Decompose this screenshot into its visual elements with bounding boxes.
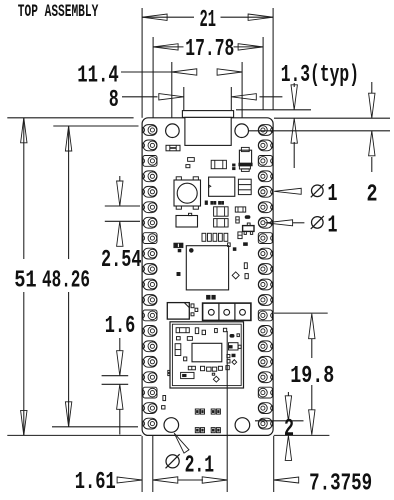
pad row 6 left [143,202,157,213]
wireless module inner outline [172,324,241,385]
svg-text:51: 51 [14,268,37,295]
component: small part near top-left hole [166,145,180,151]
pad row 8 right [258,233,272,244]
pad row 13 left [143,310,157,321]
dim 21 overall width [141,8,143,118]
module right box [229,343,239,350]
diamond part [232,272,239,279]
component B with pads (crystal) [241,147,249,151]
pad row 17 left [143,372,157,383]
tiny parts beside flash [191,304,194,308]
svg-text:11.4: 11.4 [77,62,119,89]
PCB board outline [142,118,273,436]
small cap c1 [188,158,195,162]
pad row 19 right [258,403,272,414]
pad row 16 left [143,356,157,367]
pad row 12 left [143,295,157,306]
svg-text:48.26: 48.26 [42,268,90,295]
pad row 11 right [258,279,272,290]
tiny two-dot part right of resistor [233,164,235,166]
pad row 15 right [258,341,272,352]
debug connector [203,303,251,320]
small caps row [205,201,207,204]
inductor / caps stack right [238,179,251,194]
module right small parts [227,355,230,358]
pad row 11 left [143,279,157,290]
flash chip [167,303,189,320]
dim 17.78 hole columns [152,37,154,118]
chip resistor R near usb [211,160,226,168]
pad row 13 right [258,310,272,321]
pad row 12 right [258,295,272,306]
svg-text:21: 21 [200,7,217,34]
pad row 19 left [143,403,157,414]
pad row 4 left [143,171,157,182]
two-pad part a [236,217,239,223]
dim 2 pin20 to bottom edge [255,420,304,422]
pad row 4 right [258,171,272,182]
pad row 2 left [143,140,157,151]
module resistor top-left [176,328,189,333]
pad row 10 right [258,264,272,275]
svg-text:17.78: 17.78 [185,36,234,63]
pad row 3 right [258,156,272,167]
dim 2.54 pad pitch [105,205,140,207]
svg-text:8: 8 [109,87,119,114]
module edge tabs [168,370,170,372]
pad row 17 right [258,372,272,383]
dim 51 board length [7,117,133,119]
chip resistor R3 [214,219,229,227]
tiny pill b [244,243,248,246]
pad row 20 left [143,418,157,429]
mounting hole [235,124,249,138]
pad row 7 right [258,217,272,228]
svg-text:2: 2 [367,181,378,208]
module bottom row [188,366,195,370]
test pad pairs [195,409,199,414]
svg-text:1.61: 1.61 [75,469,116,496]
pad row 1 left [143,125,157,136]
dia 1 pin hole label [266,220,293,226]
small cap c2 [186,165,190,168]
module left parts [177,337,181,340]
board bottom extension lines [7,434,141,436]
module bottom-left box [181,372,194,378]
module small parts top row [195,328,198,334]
svg-text:1: 1 [328,212,338,239]
sot-23 transistor [247,223,250,226]
dim 11.4 mounting holes [171,62,173,118]
mounting hole [166,124,180,138]
svg-text:7.3759: 7.3759 [309,470,372,497]
two dark dots above debug connector [207,295,210,299]
two-pad part b [238,232,242,239]
pad row 9 right [258,248,272,259]
pad row 20 right [258,418,272,429]
regulator chip U [209,177,235,196]
small resistor left of RP2040 [174,243,183,247]
svg-text:2.54: 2.54 [101,247,142,274]
pad row 7 left [143,217,157,228]
pad row 5 right [258,186,272,197]
pad row 10 left [143,264,157,275]
pad row 8 left [143,233,157,244]
bottom extension verticals [141,436,143,492]
mounting hole [164,418,179,433]
svg-text:1: 1 [328,181,338,208]
pad row 6 right [258,202,272,213]
usb connector body [185,117,231,145]
dim hole column to module feature [178,479,203,481]
pad row 5 left [143,186,157,197]
dim 19.8 debug connector to bottom [274,312,328,314]
tiny pill a [245,216,250,219]
BOOTSEL button [176,177,181,180]
pad row 14 left [143,326,157,337]
svg-text:1.6: 1.6 [105,313,136,340]
svg-text:TOP ASSEMBLY: TOP ASSEMBLY [18,2,99,22]
pad row 2 right [258,140,272,151]
CYW43439 chip [192,343,222,362]
RP2040 chip [186,246,228,290]
bottom-left tiny parts [163,396,166,401]
svg-text:2: 2 [284,416,294,443]
svg-text:2.1: 2.1 [185,453,215,480]
dim 2 top edge to pin1 [274,117,390,119]
chip resistor right cluster [235,207,245,212]
wireless module outer shield [170,322,244,388]
chip resistor R2 [214,207,229,216]
pad row 9 left [143,248,157,259]
dim 7.3759 [274,477,299,483]
pad row 15 left [143,341,157,352]
pad row 18 left [143,387,157,398]
pad row 18 right [258,387,272,398]
pad row 3 left [143,156,157,167]
tiny parts around RP2040 [178,249,181,251]
dim 8 usb width [183,87,185,110]
dia 1 castellation label [274,188,301,194]
dia 2.1 mounting hole label [174,433,189,453]
pad row 14 right [258,326,272,337]
mounting hole [235,418,250,433]
pad row 1 right [258,125,272,136]
dim 48.26 pin row span [53,125,138,127]
pad row 16 right [258,356,272,367]
usb connector lip [182,111,233,118]
SMD component below button [189,213,192,215]
decoupling cap row [202,233,206,241]
